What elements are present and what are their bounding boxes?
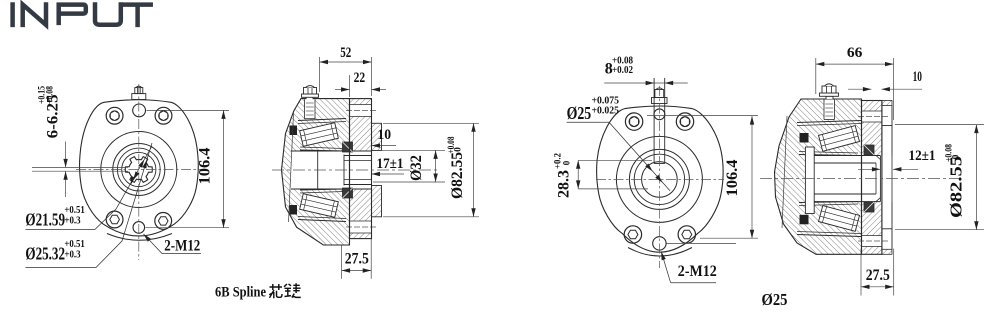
body outline restroke	[282, 99, 350, 245]
inner circle r17.1	[122, 152, 156, 186]
bearing inner collar	[805, 147, 814, 214]
dim 6-6.25 line/arrows	[65, 142, 67, 168]
plate top ear band hatched	[882, 101, 892, 106]
upper bearing inner race	[799, 152, 858, 154]
svg-text:+0.02: +0.02	[612, 65, 633, 76]
shaft bore band cutout	[805, 156, 893, 202]
lower bearing inner race	[799, 204, 858, 206]
bolt hole channel in body	[305, 99, 316, 119]
shaft end face	[879, 156, 881, 202]
bolt hole bottom-left	[106, 211, 123, 228]
upper bearing outer race	[797, 121, 861, 123]
pilot projection column	[881, 106, 883, 250]
shaft internal lines	[805, 155, 880, 157]
dim 27.5 right	[860, 249, 862, 296]
flange bottom lip arc	[628, 248, 692, 257]
body facet line	[782, 116, 787, 228]
INPUT logo	[13, 5, 151, 25]
spline bore lines	[291, 151, 372, 189]
right section: body hatched	[775, 99, 862, 254]
dim dia82.55	[383, 122, 479, 124]
lower bearing outer race	[298, 220, 346, 222]
svg-text:2-M12: 2-M12	[164, 238, 200, 255]
plate hatched	[862, 101, 882, 255]
shaft end chamfers	[876, 156, 880, 202]
lower bearing roller	[818, 206, 859, 232]
boss circle	[616, 136, 702, 222]
port hole top-center	[133, 104, 146, 117]
svg-text:22: 22	[354, 70, 366, 86]
bore band cutout	[291, 151, 372, 189]
leader dia25.32	[25, 143, 152, 268]
svg-text:0: 0	[562, 160, 572, 165]
upper bearing outer race	[298, 119, 346, 121]
lower bearing roller	[300, 194, 339, 218]
dim 12±1	[858, 168, 880, 170]
circle r30	[629, 149, 689, 209]
svg-text:Ø25: Ø25	[762, 290, 788, 309]
svg-text:Ø82.55: Ø82.55	[449, 152, 466, 199]
body outline restroke	[775, 99, 862, 254]
caption hanzi jian	[284, 283, 301, 297]
svg-text:28.3: 28.3	[556, 170, 573, 198]
inner circle r26	[113, 144, 165, 196]
plate bore edge lines	[881, 156, 883, 202]
svg-text:+0.51: +0.51	[64, 205, 84, 216]
vertical centerline	[138, 84, 140, 260]
dim 52	[319, 57, 321, 92]
svg-text:10: 10	[377, 127, 391, 143]
plate hatched	[350, 99, 372, 239]
dim 28.3 keyway depth	[578, 159, 652, 161]
bore entry seal upper	[343, 142, 353, 152]
dim 17±1	[372, 173, 405, 175]
svg-text:12±1: 12±1	[909, 148, 936, 164]
bolt hole top-right	[676, 113, 693, 130]
female bore lines	[814, 162, 876, 164]
plate bolt hole gaps	[861, 111, 881, 122]
dim dia32	[373, 149, 445, 151]
plate bottom ear band hatched	[882, 249, 892, 254]
svg-text:+0.3: +0.3	[64, 250, 80, 261]
left section: body hatched	[282, 99, 350, 245]
caption hanzi hua	[269, 284, 282, 298]
dim 8 keyway	[604, 82, 688, 84]
svg-text:0: 0	[952, 154, 962, 159]
svg-text:10: 10	[913, 69, 922, 85]
dim 106.4 right	[647, 115, 758, 117]
bore entry seal upper	[864, 145, 874, 155]
bolt hole top-left	[106, 107, 123, 124]
body facet line	[289, 113, 294, 222]
bleed nipple	[652, 88, 668, 104]
upper bearing inner race	[300, 147, 344, 149]
lower bearing outer race	[797, 235, 861, 237]
flange bottom lip arc	[107, 234, 172, 241]
dim 10 pilot	[372, 145, 397, 147]
bore entry seal lower	[864, 202, 874, 212]
svg-text:66: 66	[847, 45, 863, 61]
bolt hole bottom-left	[624, 226, 641, 243]
svg-text:17±1: 17±1	[377, 156, 404, 172]
bolt hole channel in body	[824, 100, 835, 120]
upper bearing roller	[818, 126, 859, 152]
bolt hole bottom-right	[155, 213, 172, 230]
bolt hole top-right	[155, 107, 172, 124]
horizontal centerline	[596, 178, 724, 180]
right front view: flange outline	[597, 106, 724, 252]
leader dia21.59	[25, 146, 152, 229]
svg-text:2-M12: 2-M12	[678, 263, 717, 280]
section centerline	[760, 178, 960, 180]
svg-text:27.5: 27.5	[866, 267, 890, 284]
plate outline restroke	[350, 99, 372, 239]
left front view: flange outline	[79, 100, 198, 236]
dim 106.4	[147, 109, 230, 111]
vertical centerline	[658, 86, 660, 268]
svg-text:6B Spline: 6B Spline	[215, 285, 266, 301]
bottom hole extension line	[667, 242, 737, 244]
shaft circle	[642, 162, 678, 198]
seal lower dark	[800, 215, 809, 225]
horizontal centerline	[76, 169, 202, 171]
dim dia82.55 right	[895, 124, 984, 126]
seal lower dark	[290, 205, 298, 215]
port hole bottom-center	[133, 222, 145, 234]
svg-text:+0.025: +0.025	[592, 106, 620, 117]
dim 22	[349, 75, 351, 97]
bleed nipple	[132, 86, 146, 99]
housing bolt top	[302, 86, 319, 100]
lower bearing inner race	[300, 192, 344, 194]
svg-text:+0.51: +0.51	[64, 239, 84, 250]
bore entry seal lower	[343, 188, 353, 198]
svg-text:27.5: 27.5	[345, 251, 369, 268]
plate outline restroke	[862, 101, 882, 255]
svg-text:0: 0	[454, 147, 464, 152]
svg-text:Ø82.55: Ø82.55	[947, 156, 966, 218]
keyway slot	[653, 78, 655, 164]
svg-text:106.4: 106.4	[197, 148, 214, 185]
port hole top-center	[654, 109, 665, 120]
seal upper dark	[800, 133, 809, 143]
pilot lower hatched	[372, 186, 382, 217]
svg-text:Ø25: Ø25	[567, 103, 592, 123]
svg-text:+0.3: +0.3	[64, 216, 80, 227]
svg-text:Ø21.59: Ø21.59	[25, 210, 65, 230]
svg-text:Ø25.32: Ø25.32	[25, 244, 65, 264]
port hole bottom-center	[653, 237, 666, 250]
bolt hole bottom-right	[678, 226, 695, 243]
inner circle r21.4	[117, 148, 160, 191]
section centerline	[272, 169, 440, 171]
svg-text:Ø32: Ø32	[408, 155, 425, 181]
seal upper dark	[290, 126, 298, 136]
svg-text:106.4: 106.4	[724, 160, 741, 197]
6B spline profile	[125, 157, 152, 183]
dim 66	[815, 58, 817, 94]
housing bolt top	[820, 84, 839, 99]
upper bearing roller	[300, 123, 339, 147]
svg-text:+0.08: +0.08	[45, 86, 55, 104]
boss circle	[101, 132, 177, 208]
bolt hole top-left	[625, 113, 642, 130]
dim 10 plate	[848, 88, 871, 90]
circle r25.2	[634, 154, 684, 204]
pilot upper hatched	[372, 123, 382, 150]
spline flat extension lines	[32, 166, 128, 168]
svg-text:52: 52	[340, 45, 351, 61]
dim 27.5	[341, 245, 343, 279]
plate bolt hole gaps	[349, 105, 372, 117]
